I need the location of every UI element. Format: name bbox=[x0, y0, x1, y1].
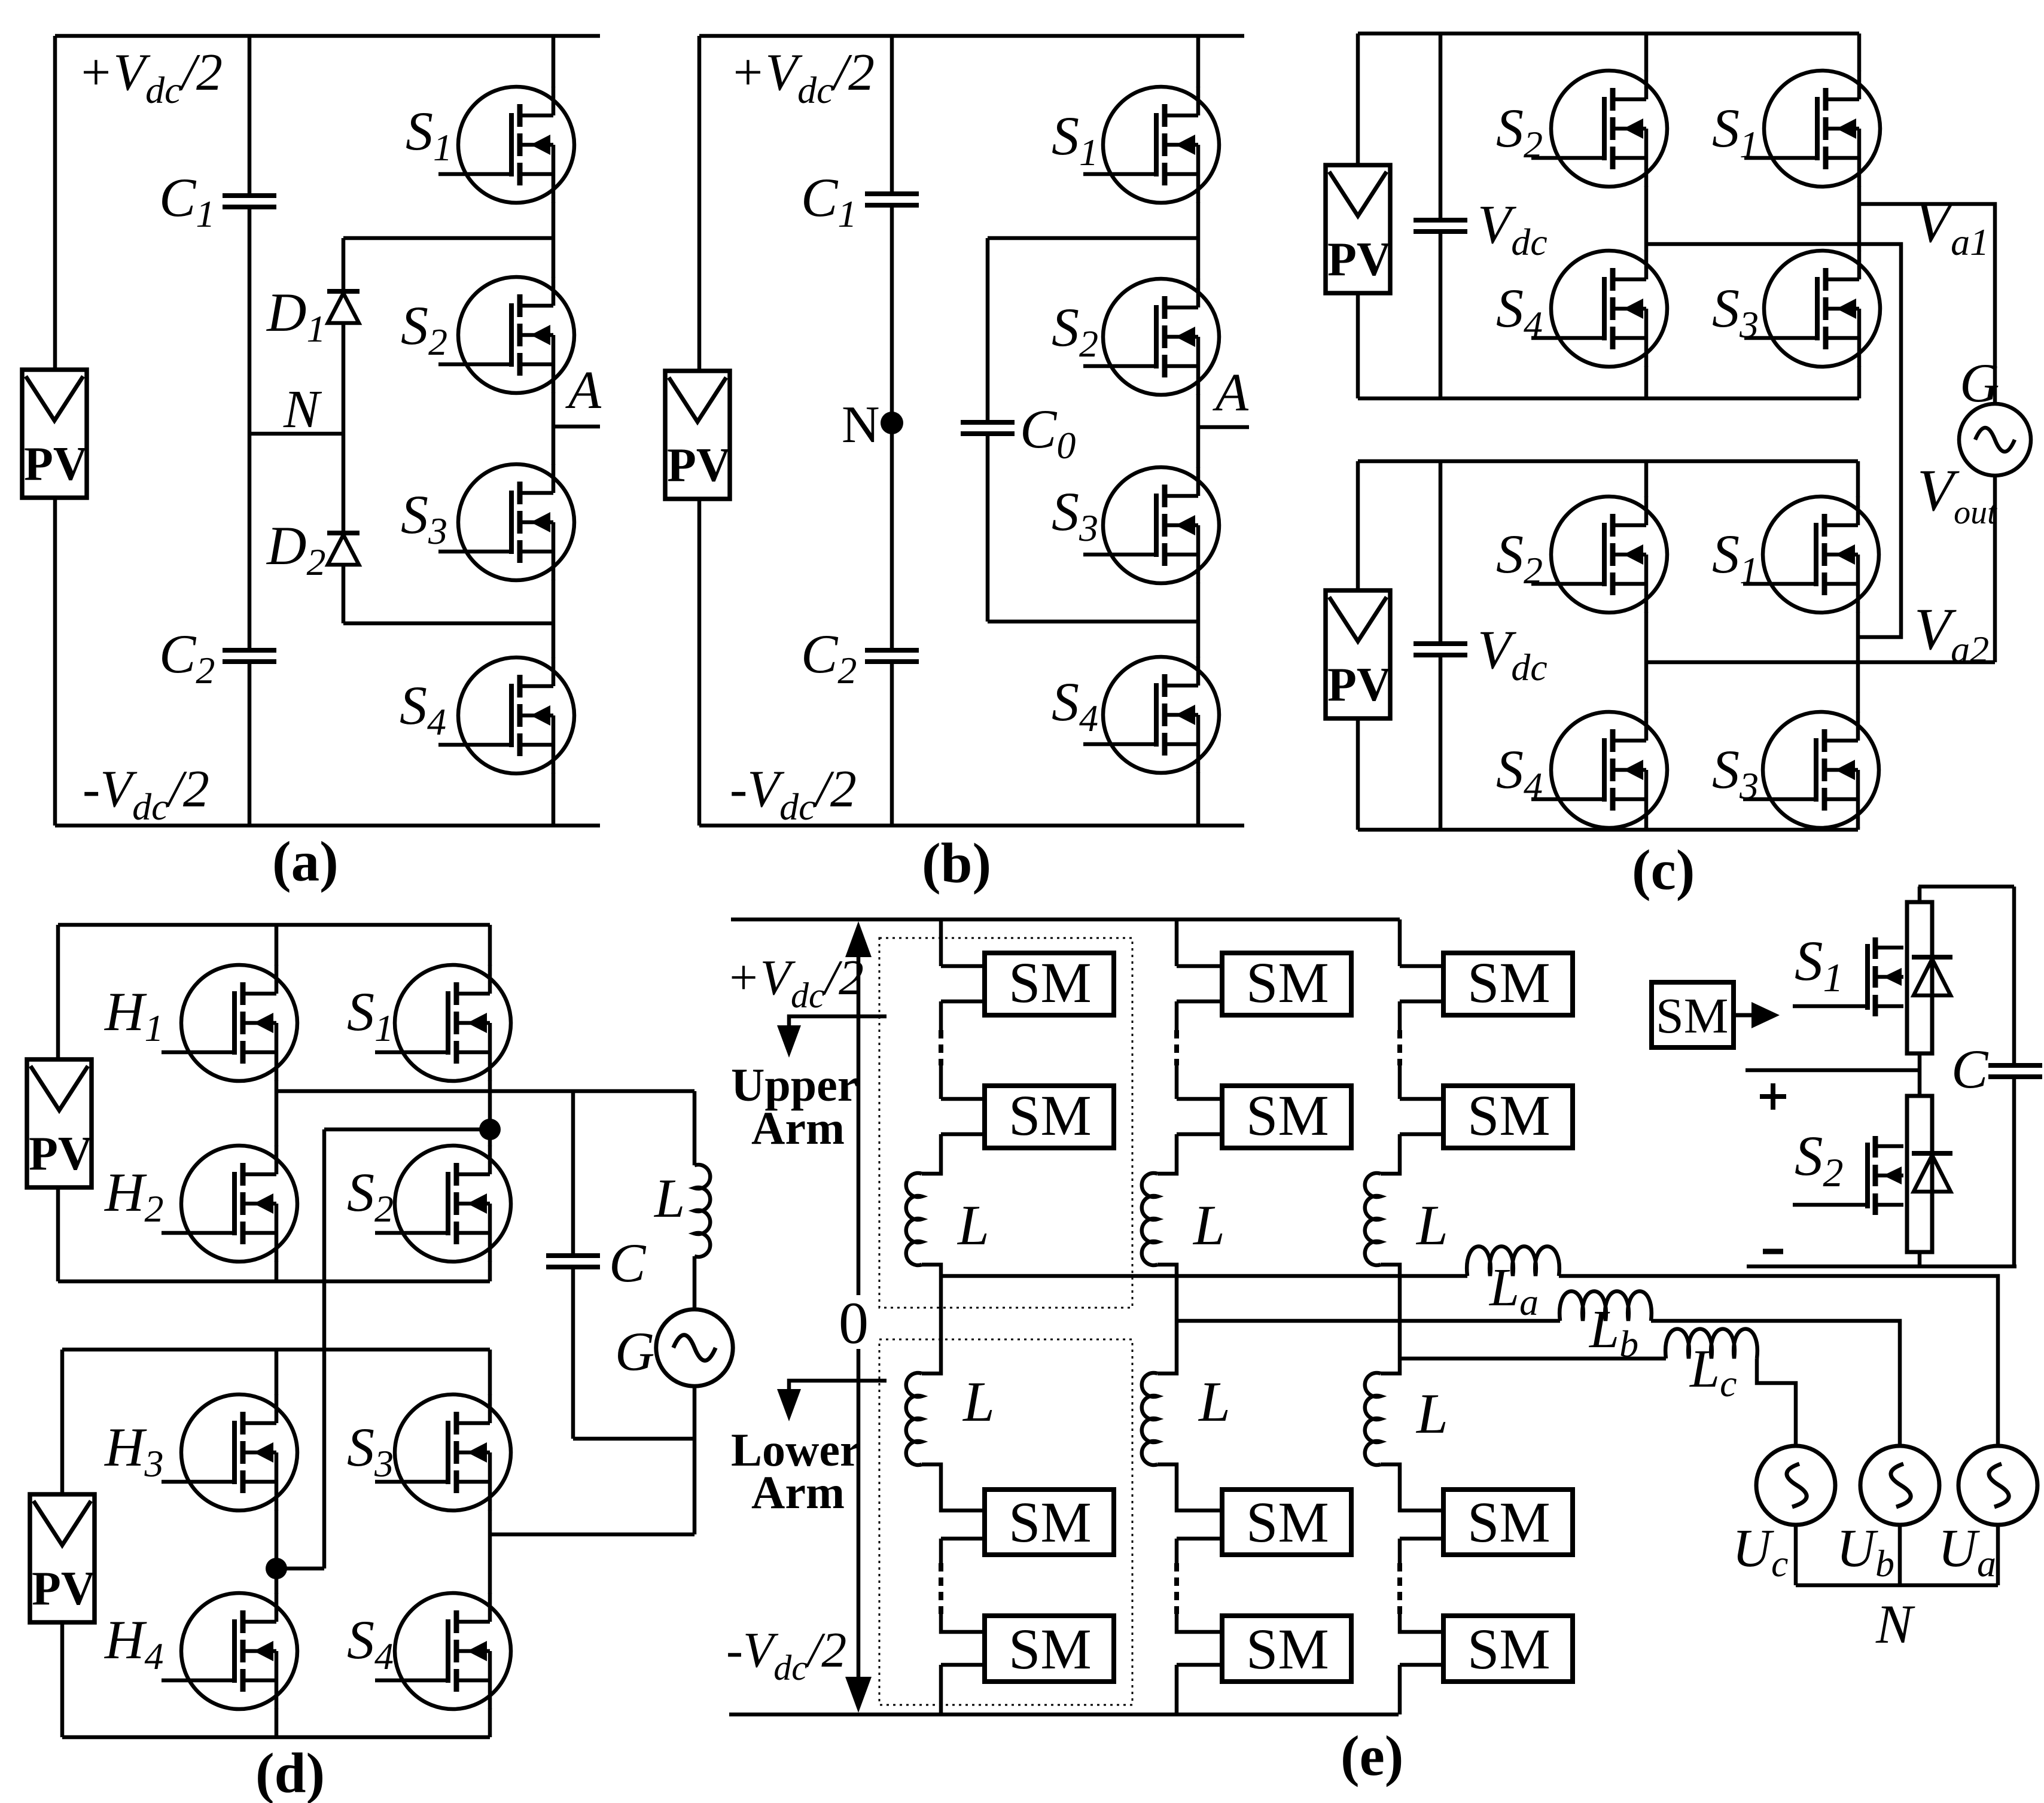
wire phase c output bbox=[1400, 1357, 1666, 1361]
wire clamp bracket top bbox=[343, 236, 553, 240]
transistor S1 (SM detail) bbox=[1793, 937, 1903, 1016]
wire C branch to G node bbox=[573, 1437, 694, 1441]
source Uc bbox=[1756, 1446, 1835, 1525]
transistor S2 (d) bbox=[375, 1146, 511, 1262]
PV panel (d1) bbox=[27, 1059, 93, 1187]
phase leg 1 wires and SM boxes bbox=[906, 919, 985, 1714]
wire switch bus rail to S1 bbox=[552, 36, 556, 87]
wire capacitor bus mid bbox=[248, 207, 252, 650]
wire left bus lower (d2) bbox=[60, 1622, 65, 1737]
wire N to D2 cathode bbox=[342, 434, 346, 533]
transistor H2 bbox=[162, 1146, 297, 1262]
SM submodule box leg 3 #2 bbox=[1443, 1083, 1573, 1148]
inductor La coil bbox=[1467, 1247, 1559, 1277]
wire H leg rail to H3 bbox=[275, 1350, 279, 1395]
PV panel (d2) bbox=[30, 1494, 96, 1622]
SM submodule box leg 3 #4 bbox=[1443, 1616, 1573, 1682]
svg-text:G: G bbox=[615, 1321, 654, 1382]
transistor S2 (b) bbox=[1083, 279, 1219, 395]
svg-text:C: C bbox=[1951, 1038, 1989, 1100]
wire output line A (d) bbox=[276, 1089, 694, 1094]
wire left leg S4 to rail (c2) bbox=[1644, 827, 1649, 830]
wire bottom rail (d2) bbox=[62, 1735, 490, 1740]
PV panel (b) bbox=[665, 371, 731, 499]
SM submodule box leg 1 #4 bbox=[985, 1616, 1114, 1682]
svg-text:L: L bbox=[653, 1168, 685, 1229]
wire phase c to Uc bbox=[1757, 1359, 1796, 1445]
wire S4 to bottom rail bbox=[552, 773, 556, 826]
transistor H1 bbox=[162, 965, 297, 1081]
capacitor Vdc bridge 2 bbox=[1414, 644, 1467, 655]
svg-text:C: C bbox=[609, 1232, 647, 1293]
wire S1 top stub bbox=[1918, 887, 1922, 902]
wire C cap upper (SM detail) bbox=[2012, 887, 2016, 1065]
node N horizontal wire bbox=[249, 432, 343, 436]
capacitor C2 bbox=[223, 650, 276, 662]
wire left leg S4 to rail (c1) bbox=[1644, 366, 1649, 398]
wire H leg H2 to rail bbox=[275, 1261, 279, 1281]
wire plus terminal bbox=[1746, 1068, 1920, 1073]
wire C0 upper leg bbox=[986, 238, 990, 422]
svg-text:SM: SM bbox=[1009, 1617, 1092, 1681]
transistor S3 (b) bbox=[1083, 467, 1219, 583]
wire top rail (a) bbox=[55, 34, 600, 38]
wire Ub to N bbox=[1898, 1525, 1902, 1585]
source G (d) bbox=[656, 1309, 733, 1386]
wire clamp bracket bottom bbox=[343, 622, 553, 626]
wire left leg S2 to S4 (c2) bbox=[1644, 612, 1649, 712]
svg-text:SM: SM bbox=[1467, 1083, 1550, 1147]
inductor Lc coil bbox=[1665, 1329, 1757, 1359]
wire S3 to S4 bbox=[552, 580, 556, 658]
transistor S4 (d) bbox=[375, 1593, 511, 1709]
label plus bbox=[1760, 1094, 1786, 1099]
wire top rail (b) bbox=[699, 34, 1244, 38]
svg-text:SM: SM bbox=[1246, 1617, 1329, 1681]
wire cap bus upper bridge 2 bbox=[1439, 461, 1443, 644]
wire C cap lower (SM detail) bbox=[2012, 1077, 2016, 1266]
wire bottom rail bridge 1 bbox=[1358, 397, 1859, 401]
source Ub bbox=[1860, 1446, 1939, 1525]
node dot lower (d) bbox=[266, 1558, 287, 1579]
wire left leg S2 to S4 (c1) bbox=[1644, 186, 1649, 251]
wire capacitor bus C1 upper bbox=[248, 36, 252, 196]
wire right leg rail to S1 (c1) bbox=[1857, 33, 1862, 71]
transistor S4 (c1) bbox=[1531, 251, 1667, 367]
wire S1 to S2 bbox=[552, 202, 556, 278]
dotted box upper arm leg 1 bbox=[879, 938, 1132, 1308]
wire left bus upper (a) bbox=[53, 36, 57, 371]
svg-text:(c): (c) bbox=[1632, 838, 1695, 901]
svg-text:0: 0 bbox=[839, 1290, 869, 1356]
node A output tick (b) bbox=[1198, 425, 1249, 430]
wire capacitor bus mid (b) bbox=[890, 205, 894, 650]
transistor S3 (d) bbox=[375, 1394, 511, 1510]
svg-text:L: L bbox=[956, 1193, 989, 1257]
wire right leg S3 to rail (c1) bbox=[1857, 366, 1862, 398]
wire capacitor bus C1 upper (b) bbox=[890, 36, 894, 194]
wire N rail bbox=[1796, 1583, 1998, 1588]
wire S leg S4 to rail (d2) bbox=[488, 1708, 492, 1737]
SM submodule box leg 2 #3 bbox=[1222, 1490, 1351, 1555]
svg-text:SM: SM bbox=[1009, 951, 1092, 1015]
transistor S2 (c1) bbox=[1531, 71, 1667, 187]
svg-text:G: G bbox=[1960, 352, 1999, 413]
wire left bus upper bridge 2 bbox=[1356, 461, 1360, 592]
svg-text:SM: SM bbox=[1467, 1490, 1550, 1554]
transistor H3 bbox=[162, 1394, 297, 1510]
Lower Arm pointer wire bbox=[789, 1381, 887, 1406]
diode D2 bbox=[327, 533, 360, 565]
svg-text:L: L bbox=[1415, 1193, 1448, 1257]
wire cap bus lower bridge 1 bbox=[1439, 232, 1443, 398]
svg-text:L: L bbox=[962, 1370, 995, 1433]
svg-text:A: A bbox=[565, 361, 602, 420]
S1 module body rectangle bbox=[1907, 902, 1932, 1053]
wire D1 cathode to bracket bbox=[342, 238, 346, 291]
transistor S1 (b) bbox=[1083, 87, 1219, 203]
svg-text:SM: SM bbox=[1467, 951, 1550, 1015]
wire bottom rail (b) bbox=[699, 824, 1244, 828]
wire S leg rail to S3 (d2) bbox=[488, 1350, 492, 1395]
wire left bus upper (d2) bbox=[60, 1350, 65, 1494]
svg-text:Arm: Arm bbox=[751, 1466, 845, 1518]
wire left leg rail to S2 (c2) bbox=[1644, 461, 1649, 497]
wire left bus upper (d1) bbox=[56, 925, 60, 1059]
transistor S4 (b) bbox=[1083, 657, 1219, 773]
SM legend arrow bbox=[1734, 1002, 1780, 1028]
capacitor C (SM detail) bbox=[1988, 1065, 2042, 1077]
wire S2 to S3 (b) bbox=[1196, 394, 1201, 468]
wire C branch top bbox=[571, 1091, 575, 1256]
svg-text:SM: SM bbox=[1246, 951, 1329, 1015]
svg-text:(d): (d) bbox=[255, 1741, 325, 1803]
capacitor C1 bbox=[223, 196, 276, 207]
SM submodule box leg 3 #3 bbox=[1443, 1490, 1573, 1555]
wire H leg H4 to rail bbox=[275, 1708, 279, 1737]
wire C0 lower leg bbox=[986, 434, 990, 622]
wire top rail (d1) bbox=[58, 923, 490, 927]
wire bottom rail (a) bbox=[55, 824, 600, 828]
wire left bus lower bridge 2 bbox=[1356, 720, 1360, 830]
wire bottom rail bridge 2 bbox=[1358, 828, 1858, 832]
wire C0 bracket top bbox=[988, 236, 1198, 240]
axis Vdc arrow line upper bbox=[789, 954, 887, 1682]
wire cap bus upper bridge 1 bbox=[1439, 33, 1443, 220]
node N junction dot bbox=[881, 412, 903, 434]
wire series link bridge1 to bridge2 bbox=[1646, 244, 1901, 637]
SM submodule box leg 2 #1 bbox=[1222, 951, 1351, 1015]
svg-text:A: A bbox=[1213, 363, 1249, 422]
svg-text:SM: SM bbox=[1246, 1083, 1329, 1147]
wire bottom rail (e) bbox=[729, 1713, 1399, 1717]
PV panel (a) bbox=[22, 370, 88, 498]
transistor S4 (c2) bbox=[1531, 712, 1667, 828]
transistor S2 (SM detail) bbox=[1793, 1136, 1903, 1215]
node A output tick bbox=[553, 425, 600, 429]
capacitor C0 bbox=[961, 422, 1015, 434]
PV panel (c) bridge 1 bbox=[1326, 165, 1391, 293]
wire top rail (e) bbox=[731, 918, 1400, 922]
phase leg 3 wires and SM boxes bbox=[1365, 919, 1443, 1714]
transistor S2 (a) bbox=[438, 277, 574, 393]
wire minus terminal bbox=[1747, 1265, 2016, 1269]
Lower Arm pointer arrowhead bbox=[777, 1389, 801, 1421]
SM legend box bbox=[1652, 982, 1734, 1047]
wire phase b output bbox=[1177, 1319, 1560, 1323]
wire bottom rail (d1) bbox=[58, 1280, 490, 1284]
wire S1 to S2 stub bbox=[1918, 1053, 1922, 1096]
S2 module body rectangle bbox=[1907, 1096, 1932, 1252]
capacitor Vdc bridge 1 bbox=[1414, 220, 1467, 232]
wire Uc to N bbox=[1794, 1525, 1798, 1585]
transistor S3 (c2) bbox=[1743, 712, 1879, 828]
wire capacitor bus lower bbox=[248, 662, 252, 826]
wire left bus lower (d1) bbox=[56, 1187, 60, 1281]
transistor S1 (d) bbox=[375, 965, 511, 1081]
transistor S1 (c2) bbox=[1743, 497, 1879, 613]
svg-text:N: N bbox=[1875, 1594, 1915, 1655]
wire D2 anode to bracket bbox=[342, 565, 346, 623]
diode D1 bbox=[327, 291, 360, 323]
wire right leg S3 to rail (c2) bbox=[1856, 827, 1860, 830]
transistor S1 (c1) bbox=[1744, 71, 1880, 187]
capacitor C1 (b) bbox=[865, 194, 919, 205]
wire lower output (d) bbox=[490, 1533, 694, 1537]
wire S leg rail to S1 (d1) bbox=[488, 925, 492, 966]
diode S1 (SM detail) bbox=[1912, 957, 1952, 995]
wire left bus upper (b) bbox=[697, 36, 702, 371]
wire cross link vertical bbox=[322, 1129, 327, 1569]
wire H leg rail to H1 bbox=[275, 925, 279, 966]
axis Vdc arrow line lower bbox=[857, 1349, 861, 1682]
wire C branch bottom bbox=[571, 1267, 575, 1439]
SM submodule box leg 2 #4 bbox=[1222, 1616, 1351, 1682]
wire switch bus rail to S1 (b) bbox=[1196, 36, 1201, 87]
dotted box lower arm leg 1 bbox=[879, 1339, 1132, 1705]
wire capacitor bus lower (b) bbox=[890, 662, 894, 826]
wire Va1 output to load bbox=[1859, 204, 1995, 405]
wire left bus lower bridge 1 bbox=[1356, 294, 1360, 398]
wire top rail bridge 2 bbox=[1358, 459, 1858, 464]
wire cap bus lower bridge 2 bbox=[1439, 655, 1443, 830]
wire S4 to bottom rail (b) bbox=[1196, 772, 1201, 826]
source G Vout bbox=[1959, 404, 2031, 476]
transistor H4 bbox=[162, 1593, 297, 1709]
wire left bus upper bridge 1 bbox=[1356, 33, 1360, 166]
transistor S3 (c1) bbox=[1744, 251, 1880, 367]
axis arrowhead down bbox=[845, 1677, 872, 1713]
transistor S4 (a) bbox=[438, 657, 574, 773]
wire Va2 output bbox=[1646, 660, 1995, 665]
SM submodule box leg 1 #1 bbox=[985, 951, 1114, 1015]
wire S leg S2 to rail (d1) bbox=[488, 1261, 492, 1281]
svg-text:Arm: Arm bbox=[751, 1102, 845, 1154]
SM submodule box leg 1 #2 bbox=[985, 1083, 1114, 1148]
node dot upper (d) bbox=[479, 1119, 501, 1140]
transistor S2 (c2) bbox=[1531, 497, 1667, 613]
svg-text:SM: SM bbox=[1467, 1617, 1550, 1681]
capacitor C2 (b) bbox=[865, 650, 919, 662]
svg-text:(e): (e) bbox=[1341, 1724, 1403, 1787]
wire left bus lower (b) bbox=[697, 499, 702, 826]
wire top rail bridge 1 bbox=[1358, 32, 1859, 36]
svg-text:(b): (b) bbox=[922, 832, 991, 895]
SM submodule box leg 1 #3 bbox=[985, 1490, 1114, 1555]
inductor L (d) bbox=[694, 1165, 710, 1257]
wire D1 anode to N bbox=[342, 323, 346, 434]
source Ua bbox=[1958, 1446, 2037, 1525]
wire right leg rail to S1 (c2) bbox=[1856, 461, 1860, 497]
wire S leg S1 to S2 (d1) bbox=[488, 1080, 492, 1146]
wire H leg H1 to H2 bbox=[275, 1080, 279, 1146]
label minus bbox=[1763, 1249, 1783, 1254]
wire S1 to S2 (b) bbox=[1196, 202, 1201, 279]
wire S3 to S4 (b) bbox=[1196, 583, 1201, 657]
svg-text:L: L bbox=[1415, 1382, 1448, 1445]
transistor S3 (a) bbox=[438, 464, 574, 580]
PV panel (c) bridge 2 bbox=[1326, 590, 1391, 718]
wire C0 bracket bottom bbox=[988, 620, 1198, 624]
svg-text:N: N bbox=[842, 396, 880, 454]
svg-text:SM: SM bbox=[1246, 1490, 1329, 1554]
wire phase a to Ua bbox=[1559, 1276, 1998, 1445]
wire phase b to Ub bbox=[1651, 1321, 1900, 1445]
svg-text:SM: SM bbox=[1656, 988, 1728, 1044]
svg-text:N: N bbox=[283, 380, 322, 439]
wire phase a output bbox=[941, 1247, 1998, 1586]
Upper Arm pointer arrowhead bbox=[777, 1025, 801, 1058]
wire L branch upper bbox=[693, 1091, 697, 1165]
wire S leg S3 to S4 (d2) bbox=[488, 1510, 492, 1594]
wire cross link horizontal upper bbox=[324, 1128, 490, 1132]
wire cross link horizontal lower bbox=[276, 1567, 324, 1571]
wire H leg H3 to H4 bbox=[275, 1510, 279, 1594]
inductor Lb coil bbox=[1559, 1292, 1652, 1321]
diode S2 (SM detail) bbox=[1912, 1153, 1952, 1192]
wire load bottom to Va2 bbox=[1993, 474, 1997, 662]
SM submodule box leg 3 #1 bbox=[1443, 951, 1573, 1015]
capacitor C (d) bbox=[546, 1256, 600, 1267]
phase leg 2 wires and SM boxes bbox=[1142, 919, 1222, 1714]
Upper Arm pointer wire bbox=[789, 1016, 887, 1042]
SM submodule box leg 2 #2 bbox=[1222, 1083, 1351, 1148]
svg-text:SM: SM bbox=[1009, 1490, 1092, 1554]
wire SM detail top bbox=[1918, 885, 2014, 889]
svg-text:SM: SM bbox=[1009, 1083, 1092, 1147]
wire S2 bottom stub bbox=[1918, 1252, 1922, 1266]
wire S2 to S3 bbox=[552, 392, 556, 465]
axis arrowhead up bbox=[845, 921, 872, 957]
svg-text:(a): (a) bbox=[272, 830, 339, 893]
wire top rail (d2) bbox=[62, 1348, 490, 1352]
wire left leg rail to S2 (c1) bbox=[1644, 33, 1649, 71]
transistor S1 (a) bbox=[438, 87, 574, 203]
wire right leg S1 to S3 (c1) bbox=[1857, 186, 1862, 251]
svg-text:L: L bbox=[1192, 1193, 1225, 1257]
wire left bus lower (a) bbox=[53, 499, 57, 826]
wire right leg S1 to S3 (c2) bbox=[1856, 612, 1860, 712]
wire L coil to G bbox=[693, 1256, 697, 1310]
svg-text:L: L bbox=[1198, 1370, 1230, 1433]
wire Ua to N bbox=[1996, 1525, 2000, 1585]
wire G to lower output bbox=[693, 1386, 697, 1534]
